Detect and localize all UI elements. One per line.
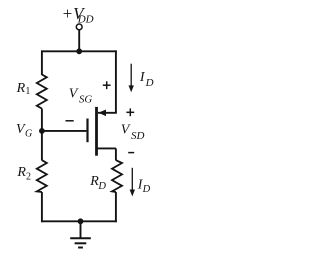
- wire R2 to bottom rail: [41, 192, 43, 222]
- minus sign VSG: [66, 120, 74, 122]
- svg-text:G: G: [25, 129, 32, 140]
- resistor R2: [37, 160, 47, 192]
- transistor Q1 channel: [95, 107, 98, 156]
- wire top rail: [41, 50, 117, 52]
- wire RD to bottom rail: [115, 192, 117, 222]
- wire drain to RD: [115, 148, 117, 160]
- current arrow ID bottom: [130, 168, 135, 197]
- svg-text:D: D: [142, 184, 151, 195]
- svg-text:R: R: [16, 165, 26, 180]
- transistor Q1 drain lead: [97, 147, 116, 149]
- label ID bottom: [137, 178, 151, 196]
- wire R1 to VG: [41, 109, 43, 131]
- label R1: [16, 81, 31, 97]
- svg-text:R: R: [16, 81, 26, 96]
- node ground junction: [78, 218, 84, 224]
- node top junction: [76, 48, 82, 54]
- node VG junction: [39, 128, 45, 134]
- label R2: [16, 165, 31, 183]
- wire VG to R2: [41, 131, 43, 161]
- plus sign VSD: [126, 108, 134, 116]
- ground: [70, 221, 91, 247]
- label RD: [89, 174, 106, 192]
- svg-text:D: D: [97, 181, 106, 192]
- svg-text:1: 1: [25, 86, 30, 97]
- resistor RD: [112, 160, 122, 192]
- wire gate lead: [42, 130, 87, 132]
- wire bottom rail: [41, 220, 117, 222]
- current arrow ID top: [129, 64, 134, 93]
- svg-text:2: 2: [26, 172, 31, 183]
- resistor R1: [37, 75, 47, 109]
- wire VDD stem: [78, 30, 80, 52]
- label VG: [16, 122, 32, 140]
- terminal VDD (open circle): [76, 24, 82, 30]
- svg-text:V: V: [121, 123, 131, 138]
- svg-text:SG: SG: [79, 94, 92, 106]
- transistor Q1 gate bar: [86, 119, 88, 143]
- wire right branch upper: [115, 50, 117, 112]
- label +VDD: [62, 4, 94, 26]
- label ID top: [139, 70, 154, 89]
- svg-text:D: D: [145, 77, 154, 89]
- minus sign VSD: [128, 152, 134, 154]
- label VSD: [121, 123, 145, 142]
- label VSG: [69, 87, 93, 106]
- svg-text:V: V: [69, 87, 79, 102]
- svg-text:SD: SD: [131, 130, 145, 142]
- transistor Q1 source lead with arrow: [98, 110, 117, 117]
- wire left branch upper: [41, 50, 43, 75]
- plus sign VSG: [103, 81, 111, 89]
